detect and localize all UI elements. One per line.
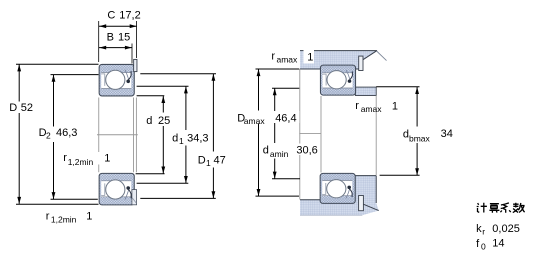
svg-text:1: 1 xyxy=(392,101,398,113)
svg-text:1: 1 xyxy=(86,210,92,222)
svg-text:46,4: 46,4 xyxy=(275,113,296,125)
svg-text:amax: amax xyxy=(277,55,299,65)
svg-text:1,2min: 1,2min xyxy=(51,215,77,225)
svg-text:0: 0 xyxy=(481,242,486,252)
svg-text:r: r xyxy=(271,50,275,62)
svg-text:d: d xyxy=(172,132,178,144)
svg-text:34: 34 xyxy=(441,128,453,140)
svg-text:14: 14 xyxy=(492,238,504,250)
svg-text:amin: amin xyxy=(270,149,289,159)
svg-text:34,3: 34,3 xyxy=(187,132,208,144)
svg-text:25: 25 xyxy=(158,115,170,127)
svg-text:r: r xyxy=(46,210,50,222)
svg-text:D: D xyxy=(9,102,17,114)
svg-text:1: 1 xyxy=(179,136,184,146)
svg-text:0,025: 0,025 xyxy=(492,223,520,235)
svg-text:1: 1 xyxy=(307,51,313,63)
svg-text:B: B xyxy=(107,31,114,43)
svg-text:C: C xyxy=(107,9,115,21)
svg-text:30,6: 30,6 xyxy=(296,145,317,157)
svg-text:46,3: 46,3 xyxy=(56,127,77,139)
svg-text:1: 1 xyxy=(104,153,110,165)
svg-text:D: D xyxy=(198,154,206,166)
svg-text:k: k xyxy=(476,223,482,235)
svg-text:2: 2 xyxy=(46,131,51,141)
svg-text:amax: amax xyxy=(361,104,383,114)
svg-text:bmax: bmax xyxy=(409,134,431,144)
svg-text:47: 47 xyxy=(214,154,226,166)
svg-text:r: r xyxy=(482,227,485,237)
svg-text:15: 15 xyxy=(118,31,130,43)
svg-text:d: d xyxy=(146,115,152,127)
svg-text:52: 52 xyxy=(21,102,33,114)
svg-text:r: r xyxy=(355,100,359,112)
svg-text:17,2: 17,2 xyxy=(119,9,140,21)
svg-text:d: d xyxy=(263,145,269,157)
svg-text:1: 1 xyxy=(206,158,211,168)
svg-text:r: r xyxy=(63,152,67,164)
svg-text:amax: amax xyxy=(244,116,266,126)
svg-text:1,2min: 1,2min xyxy=(68,157,94,167)
